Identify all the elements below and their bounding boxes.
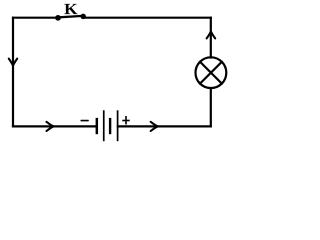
switch K left contact dot: [55, 15, 61, 21]
wire right side, above lamp: [210, 18, 212, 58]
battery positive plate (tall) right: [117, 110, 119, 141]
battery label minus: [81, 120, 89, 122]
current arrow up, right wire: [207, 31, 216, 38]
wire bottom, left of battery: [13, 125, 95, 127]
battery positive plate (tall) inner-left: [103, 110, 105, 141]
label K: [64, 4, 77, 14]
current arrow down, left wire: [9, 59, 17, 66]
lamp L1 circle: [196, 57, 227, 88]
current arrow right, bottom-right wire: [151, 122, 158, 131]
switch K blade: [58, 16, 84, 18]
battery negative plate (short) inner-right: [109, 118, 111, 134]
lamp L1 cross line 2: [200, 62, 222, 84]
battery label plus: [122, 116, 129, 125]
wire left side: [12, 18, 14, 127]
switch K right contact dot: [80, 14, 86, 20]
wire top, left of switch: [13, 17, 57, 19]
wire bottom, right of battery: [118, 125, 211, 127]
wire right side, below lamp: [210, 88, 212, 126]
battery negative plate (short) left: [96, 118, 98, 134]
lamp L1 cross line 1: [200, 62, 222, 84]
wire top, right of switch: [84, 17, 211, 19]
current arrow right, bottom-left wire: [47, 122, 54, 131]
